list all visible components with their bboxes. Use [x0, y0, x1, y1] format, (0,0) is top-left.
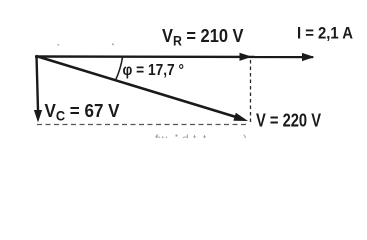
arrowhead of phasor I: [302, 53, 315, 61]
svg-text:fw: fw: [155, 132, 167, 138]
svg-text:t: t: [203, 132, 207, 138]
svg-text:VC = 67 V: VC = 67 V: [45, 101, 120, 124]
svg-text:φ = 17,7 °: φ = 17,7 °: [123, 62, 185, 79]
arrowhead of phasor VR: [240, 53, 253, 61]
angle arc phi: [115, 57, 122, 81]
phasor I (horizontal axis line): [35, 55, 313, 58]
scan speck: [112, 44, 114, 46]
svg-text:I = 2,1 A: I = 2,1 A: [297, 24, 353, 43]
svg-text:t: t: [193, 132, 197, 138]
svg-text:): ): [243, 132, 247, 138]
scan speck: [58, 44, 60, 46]
faint cut-off caption at bottom edge: [155, 132, 247, 146]
svg-text:d: d: [182, 132, 189, 138]
dashed horizontal projection line: [37, 124, 247, 126]
svg-text:V = 220 V: V = 220 V: [256, 111, 321, 131]
phasor V (diagonal): [36, 56, 248, 121]
phasor VC (vertical): [34, 56, 42, 123]
svg-text:VR = 210 V: VR = 210 V: [162, 26, 244, 49]
dashed vertical projection line: [250, 60, 252, 122]
